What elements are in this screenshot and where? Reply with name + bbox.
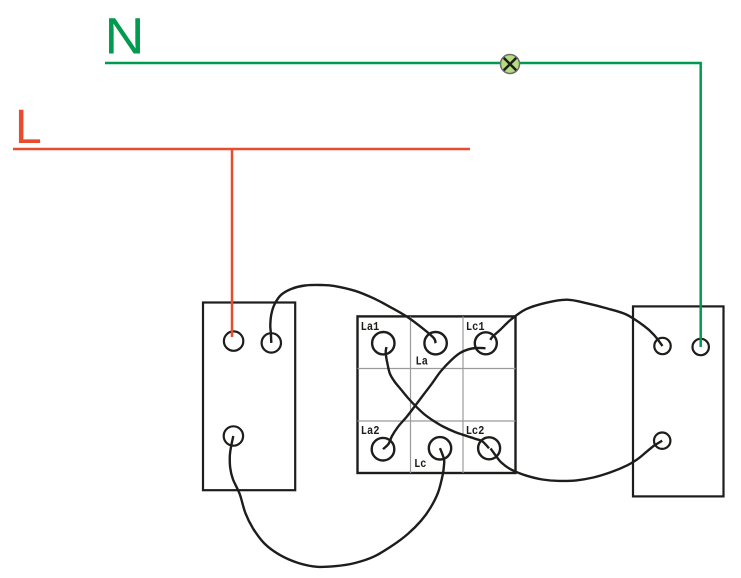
svg-text:N: N: [105, 8, 145, 65]
terminal SW3 L1: [654, 338, 670, 354]
terminal SW1 L: [224, 331, 243, 350]
switch SW1 (left two-way switch box): [203, 303, 295, 491]
svg-text:La: La: [416, 355, 428, 369]
wire SW1.L2 to SW2.Lc: [230, 436, 445, 567]
terminal SW2 La1: [372, 332, 394, 354]
intermediate switch SW2 (middle box): [358, 316, 516, 473]
svg-text:L: L: [15, 101, 42, 154]
terminal SW3 N: [693, 339, 709, 355]
terminal SW3 L2: [654, 433, 670, 449]
terminal SW1 L1: [262, 333, 281, 352]
wire SW1.L1 to SW2.La: [270, 285, 435, 343]
wire SW2.Lc1 to SW2.La2: [383, 348, 486, 449]
terminal SW2 Lc: [429, 437, 451, 459]
terminal SW2 La2: [372, 438, 395, 461]
grid line vertical 2: [462, 316, 464, 473]
terminal SW2 La: [424, 332, 446, 354]
wire SW2.La1 to SW2.Lc2: [386, 347, 489, 448]
terminal SW2 Lc2: [478, 437, 500, 459]
wire N (horizontal and drop into SW3.N): [105, 63, 701, 347]
grid line horizontal 2: [358, 420, 516, 422]
wire SW2.Lc2 to SW3.L2: [491, 441, 663, 481]
svg-text:La2: La2: [361, 424, 380, 438]
grid line horizontal 1: [358, 368, 516, 370]
grid line vertical 1: [410, 316, 412, 473]
terminal SW1 L2: [224, 426, 243, 445]
wire L drop into SW1.L: [231, 149, 234, 337]
switch SW3 (right two-way switch box): [633, 306, 724, 496]
wire L horizontal: [13, 148, 470, 151]
svg-text:La1: La1: [361, 320, 380, 334]
svg-text:Lc1: Lc1: [466, 320, 485, 334]
lamp X1: [501, 55, 520, 74]
wire SW2.Lc1 to SW3.L1: [490, 300, 662, 346]
terminal SW2 Lc1: [475, 332, 497, 354]
svg-text:Lc: Lc: [414, 457, 426, 471]
